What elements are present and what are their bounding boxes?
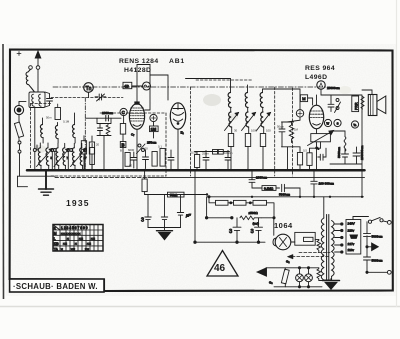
mains terminal top xyxy=(387,221,391,225)
antenna arrow xyxy=(37,53,39,66)
speaker hatch xyxy=(371,95,374,116)
svg-text:·SCHAUB· BADEN W.: ·SCHAUB· BADEN W. xyxy=(13,282,98,291)
bypass capacitor c xyxy=(168,150,174,169)
grid block box 4B xyxy=(123,82,132,88)
dial rheostat xyxy=(281,269,289,284)
svg-text:2000cm: 2000cm xyxy=(256,176,267,180)
circled symbol Wa xyxy=(324,119,331,126)
wire heater rail xyxy=(207,196,364,198)
RC network top bracket xyxy=(282,117,301,122)
box B2 xyxy=(213,150,218,155)
tube RENS1284 grid hatches xyxy=(130,108,144,121)
slim box leads xyxy=(91,144,93,171)
svg-text:±500Ω: ±500Ω xyxy=(249,211,259,215)
svg-text:H4128D: H4128D xyxy=(124,67,151,74)
svg-text:110v: 110v xyxy=(348,248,355,252)
shield box det vertical xyxy=(292,88,294,176)
speaker frame xyxy=(368,95,377,116)
svg-text:M: M xyxy=(54,232,57,236)
antenna padding capacitor xyxy=(45,92,53,107)
svg-text:4B: 4B xyxy=(124,84,129,89)
svg-text:0,5: 0,5 xyxy=(303,149,307,153)
box lead to winding xyxy=(315,238,319,240)
band coil column 3 leads xyxy=(74,113,77,143)
IF2 primary coil xyxy=(245,93,248,108)
svg-text:E₁: E₁ xyxy=(181,131,184,135)
output transformer box PRR xyxy=(352,96,359,112)
band coil column 3 xyxy=(72,125,75,138)
IF2 primary lead top xyxy=(247,85,249,92)
antenna lead right xyxy=(37,69,39,92)
scan page left edge xyxy=(2,44,5,299)
circled anode terminal A xyxy=(317,81,325,89)
wire bias rail xyxy=(145,194,208,196)
svg-text:5000cm: 5000cm xyxy=(372,259,383,263)
osc RC capacitor xyxy=(98,124,103,136)
output line y95 xyxy=(321,95,362,112)
shield box bottom dashed xyxy=(51,175,166,177)
transformer secondary winding xyxy=(332,221,335,277)
AF zigzag top lead xyxy=(331,131,346,137)
tuning pair B right coil xyxy=(63,148,66,166)
wire antenna sec down xyxy=(34,107,36,149)
tube RENS1284 anode elbow xyxy=(145,65,150,111)
earth electrode circle xyxy=(14,105,23,114)
rectifier tube anodes xyxy=(280,238,287,247)
rectifier tube 1064 body xyxy=(275,234,291,250)
variable resistor tone xyxy=(311,134,331,142)
wire left AVC line xyxy=(18,175,56,177)
shield box IF left vertical xyxy=(190,87,192,176)
svg-text:127v: 127v xyxy=(348,242,355,246)
svg-text:25cm: 25cm xyxy=(202,152,210,156)
tuning pair A arrow xyxy=(37,149,53,167)
svg-text:6000: 6000 xyxy=(128,148,135,152)
dial lamp 2 leads xyxy=(308,268,310,287)
box B1 xyxy=(120,142,126,148)
tube RENS1284 top cap xyxy=(135,102,139,104)
trimmer cap on grid line xyxy=(95,94,106,101)
band coil column 2 leads xyxy=(57,123,60,144)
dial lamp 1 leads xyxy=(299,268,301,287)
svg-text:C: C xyxy=(122,110,125,115)
wire left down stub xyxy=(18,176,28,187)
shield box IF top dashed xyxy=(196,79,252,81)
pickup contact a xyxy=(18,141,21,144)
tuning pair A leads xyxy=(35,143,53,170)
IF2 damping resistor box xyxy=(245,134,250,147)
svg-text:××: ×× xyxy=(71,247,75,251)
band coil column 1 xyxy=(40,125,43,138)
svg-text:0,5M: 0,5M xyxy=(191,151,198,155)
diode cap 25cm xyxy=(203,151,209,170)
electrolytic cap a xyxy=(342,149,349,165)
svg-text:250cm: 250cm xyxy=(147,141,157,145)
fieldcoil zigzag xyxy=(361,97,364,110)
svg-text:××: ×× xyxy=(79,237,83,241)
scan page right edge xyxy=(396,0,398,307)
svg-text:5000cm: 5000cm xyxy=(279,192,290,196)
svg-text:46: 46 xyxy=(214,263,226,274)
svg-text:0,1MΩ: 0,1MΩ xyxy=(264,186,274,190)
osc resistor box b xyxy=(89,142,94,154)
band switch table xyxy=(53,225,103,252)
series cap 1cm xyxy=(106,115,109,121)
resistor box 1M xyxy=(150,126,159,132)
wire earth top stub xyxy=(19,101,26,105)
wire box to circle xyxy=(132,85,143,87)
tuning pair A right coil xyxy=(46,148,49,166)
grid bias dash arrow lower xyxy=(292,256,330,258)
shield box tuning right vertical xyxy=(165,113,167,176)
speaker cone xyxy=(377,96,386,114)
svg-text:×: × xyxy=(61,247,63,251)
antenna transformer winding secondary xyxy=(39,94,42,106)
osc RC pair top bracket xyxy=(97,118,111,123)
AF coupling zigzag vertical xyxy=(344,137,346,152)
pickup contact b xyxy=(18,150,21,153)
tone switch contact a xyxy=(336,99,339,102)
svg-text:TA: TA xyxy=(54,247,59,251)
heater zigzag right xyxy=(317,268,322,281)
wave switch contact B left xyxy=(53,149,56,152)
tuning pair B leads xyxy=(55,143,69,170)
svg-text:L: L xyxy=(54,237,56,241)
shield box tuning top dashed right part xyxy=(100,112,166,114)
rectifier tube base xyxy=(273,238,276,246)
svg-text:μF: μF xyxy=(185,213,191,218)
pickup arrow xyxy=(266,268,274,276)
transformer taps xyxy=(335,224,342,252)
svg-text:RENS 1284: RENS 1284 xyxy=(119,58,159,65)
shield box tuning top dashed xyxy=(31,103,52,105)
svg-text:1935: 1935 xyxy=(66,198,90,208)
circled symbol Si xyxy=(334,119,341,126)
wire dashed rail left xyxy=(55,177,148,179)
antenna series coil xyxy=(26,69,35,92)
svg-text:100: 100 xyxy=(266,129,271,133)
smoothing choke zigzag xyxy=(232,217,242,219)
tuning pair C arrow xyxy=(71,149,87,167)
AVC cap 3 xyxy=(177,213,183,228)
IF1 leads xyxy=(231,108,232,171)
svg-text:Ta: Ta xyxy=(353,123,356,127)
coupling top wire to AB1 xyxy=(150,75,168,100)
heater feed vertical left xyxy=(194,170,196,242)
IF1 secondary coil variable xyxy=(229,112,232,127)
RC capacitor xyxy=(279,122,285,147)
antenna terminal right xyxy=(36,66,40,70)
mains switch contact a xyxy=(368,220,371,223)
IF3 primary lead top xyxy=(263,89,301,109)
svg-text:M: M xyxy=(302,96,305,101)
circled det symbol xyxy=(296,110,303,117)
wave switch contact C right xyxy=(84,149,87,152)
heater feed vertical right xyxy=(206,197,208,218)
dial lamp 2 xyxy=(305,274,313,282)
resistor row box 2 xyxy=(234,200,247,205)
svg-text:3: 3 xyxy=(141,218,144,224)
mains terminal bottom xyxy=(387,270,391,274)
wire resistor down xyxy=(18,138,21,176)
AVC cap 1 xyxy=(145,217,151,228)
electrolytic cap 2 xyxy=(255,218,263,242)
tone switch contact b xyxy=(336,107,339,110)
wave switch contact B right xyxy=(67,149,70,152)
resistor row wires xyxy=(209,197,274,218)
heater supply box xyxy=(295,232,315,245)
dial lamp rail top xyxy=(266,267,319,269)
resistor row box 1 xyxy=(216,200,229,205)
smoothing bottom rail xyxy=(195,241,265,243)
tube AB1 envelope xyxy=(170,103,185,129)
cathode resistor box b xyxy=(152,152,157,167)
mains lead top xyxy=(353,217,369,220)
wire transformer to tuning xyxy=(36,108,38,119)
top grid dash-dot bus xyxy=(53,86,330,88)
tone capacitor xyxy=(328,95,334,112)
AVC ground symbol xyxy=(157,230,173,232)
audio bottom rail xyxy=(308,163,357,165)
wire speaker top xyxy=(362,90,372,95)
svg-text:××: ×× xyxy=(91,237,95,241)
grid leak resistor box xyxy=(120,124,125,135)
frame plus mark xyxy=(17,52,21,56)
dial lamp 1 xyxy=(296,274,304,282)
wire Tn down xyxy=(88,92,90,97)
scan smudges xyxy=(203,94,221,106)
mains cap top xyxy=(367,217,369,222)
slanted resistor 1M xyxy=(14,122,23,137)
svg-text:20000cm: 20000cm xyxy=(327,86,340,90)
svg-text:××: ×× xyxy=(85,247,89,251)
tube AB1 diode plates xyxy=(172,104,183,122)
wire second rail xyxy=(148,177,365,179)
box R xyxy=(218,150,223,155)
wire A down xyxy=(320,89,322,95)
bias resistor leads2 xyxy=(144,170,146,194)
svg-text:S: S xyxy=(337,121,339,125)
mains lead to terminal xyxy=(383,221,388,222)
transformer secondary bottom lead xyxy=(324,276,332,280)
RC stem to bus xyxy=(288,147,301,170)
svg-text:×××××××××: ××××××××× xyxy=(61,232,81,236)
tube RENS1284 bottom lead xyxy=(136,129,138,170)
dash arrowhead xyxy=(288,254,294,258)
IF2 secondary coil variable xyxy=(246,112,249,127)
label box SCHAUB-BADEN W. xyxy=(10,279,104,292)
circled C1 xyxy=(120,108,127,115)
svg-text:100 000cm: 100 000cm xyxy=(319,182,335,186)
mains switch contact b xyxy=(380,219,383,222)
IF3 damping resistor box xyxy=(260,134,265,147)
wire M to tube xyxy=(308,98,313,105)
shield box tuning left vertical xyxy=(30,104,32,171)
coupling cap b xyxy=(353,147,360,164)
triangle mark 46 xyxy=(207,251,238,277)
tube RES964 cathode xyxy=(313,124,321,126)
resistor row box 3 xyxy=(253,200,267,205)
main HT bus wire xyxy=(27,169,365,172)
svg-text:B: B xyxy=(122,142,125,147)
tone switch blade xyxy=(335,102,341,113)
svg-text:5000cm: 5000cm xyxy=(337,147,341,158)
antenna arrowhead xyxy=(35,51,41,58)
tuning pair C right coil xyxy=(80,148,83,166)
gang capacitor link line xyxy=(36,145,38,150)
AF grid resistor box xyxy=(297,153,302,165)
bias resistor leads xyxy=(310,148,321,170)
cathode resistor box c xyxy=(160,149,165,167)
AVC caps trio stems xyxy=(148,195,181,218)
svg-text:RES 964: RES 964 xyxy=(305,65,335,72)
mains terminal bottom lead xyxy=(367,271,388,273)
wave switch contact A right xyxy=(51,149,54,152)
scan page bottom edge xyxy=(0,306,400,308)
tube RENS1284 top lead xyxy=(136,86,138,104)
svg-text:××: ×× xyxy=(63,242,67,246)
svg-text:3: 3 xyxy=(251,229,254,235)
IF3 trimmer arrow xyxy=(257,113,271,131)
tube RES964 top lead xyxy=(316,95,318,105)
tube RENS1284 cathode xyxy=(133,125,141,127)
wires screen chain xyxy=(153,122,155,138)
tuning pair B arrow xyxy=(54,149,69,167)
mains filter vertical xyxy=(364,222,371,273)
audio box right edge xyxy=(361,112,363,197)
IF1 damping resistor box xyxy=(228,134,233,147)
bias capacitor xyxy=(318,148,326,160)
transformer ground lead xyxy=(330,279,332,281)
tube AB1 bottom lead xyxy=(177,129,179,170)
IF1 trimmer arrow xyxy=(225,113,239,131)
box M xyxy=(300,95,307,102)
tuning pair C left coil xyxy=(72,148,75,166)
svg-text:100cm: 100cm xyxy=(224,151,233,155)
smoothing rail to rectifier xyxy=(261,218,274,236)
tuning pair A left coil xyxy=(38,148,41,166)
osc box leads xyxy=(84,136,92,171)
tube stem upper xyxy=(136,65,138,87)
electrolytic cap 1 xyxy=(233,218,241,242)
tuning pair C leads xyxy=(74,143,85,170)
bypass capacitor a xyxy=(131,152,137,168)
IF1 primary coil xyxy=(228,93,231,108)
shield box IF right vertical xyxy=(274,87,276,176)
transformer ground symbol xyxy=(323,280,340,282)
svg-text:60: 60 xyxy=(129,164,133,168)
wave switch contact A left xyxy=(33,149,36,152)
bias resistor vertical below bus xyxy=(142,179,147,192)
osc RC resistor xyxy=(106,124,110,136)
band coil column 2 xyxy=(55,126,58,139)
AVC cap 2 xyxy=(161,217,167,228)
IF2 leads xyxy=(248,108,249,171)
junction dots on HT bus xyxy=(36,169,364,198)
svg-text:0,1M: 0,1M xyxy=(63,120,70,124)
coupling cap series xyxy=(276,184,300,197)
voltage selector box xyxy=(346,220,361,255)
wires grid side xyxy=(122,116,125,171)
heater dropper zigzag xyxy=(317,239,321,252)
bypass capacitor b xyxy=(143,150,149,169)
transformer core lines xyxy=(327,215,329,281)
osc coupling line xyxy=(85,117,121,119)
svg-text:50kΩ: 50kΩ xyxy=(170,193,178,197)
RC bottom bracket xyxy=(282,146,294,148)
selector plug blob xyxy=(350,235,358,238)
circled symbol Ta xyxy=(351,121,358,128)
cap 100cm xyxy=(225,151,231,170)
antenna terminal left xyxy=(29,66,33,70)
tube side wires down xyxy=(317,129,321,170)
svg-text:B: B xyxy=(120,149,122,153)
AVC ground bracket xyxy=(148,228,181,231)
junction dots bottom xyxy=(194,217,368,288)
AF resistor lead xyxy=(299,165,301,170)
svg-text:50m: 50m xyxy=(46,116,52,120)
svg-text:5000cm: 5000cm xyxy=(372,235,383,239)
svg-text:(var): (var) xyxy=(253,222,259,226)
svg-text:KG: KG xyxy=(54,242,59,246)
smoothing top rail xyxy=(207,217,232,219)
tube AB1 cathode dot xyxy=(177,123,179,125)
circled symbol Tn xyxy=(84,83,94,93)
svg-text:30: 30 xyxy=(234,129,238,133)
ground chassis left xyxy=(39,170,54,195)
svg-text:220v: 220v xyxy=(348,229,355,233)
wire earth to resistor xyxy=(18,115,20,122)
screen grid resistor box xyxy=(55,108,61,120)
dial lamp rail bottom xyxy=(274,286,322,288)
osc RC bottom bracket xyxy=(97,136,111,171)
svg-text:1000: 1000 xyxy=(251,129,258,133)
svg-text:PRR: PRR xyxy=(355,102,359,110)
border frame xyxy=(10,50,393,292)
osc section dash-dot vertical xyxy=(84,98,86,171)
antenna transformer winding primary xyxy=(32,94,35,106)
wave switch contacts xyxy=(138,144,141,147)
svg-text:1064: 1064 xyxy=(274,221,293,230)
rectifier lead right xyxy=(291,241,295,243)
antenna coupling transformer box xyxy=(29,92,45,108)
band coil column 1 leads xyxy=(42,118,45,143)
svg-text:1M: 1M xyxy=(151,126,157,131)
table X marks xyxy=(61,232,95,252)
mains switch blade xyxy=(372,217,381,220)
heater resistor inside xyxy=(304,237,314,241)
tube RES964 envelope xyxy=(309,105,323,129)
svg-text:100: 100 xyxy=(143,147,148,151)
antenna tap arrow xyxy=(367,246,374,248)
svg-text:C₇: C₇ xyxy=(131,133,134,137)
tap dots xyxy=(341,223,343,253)
bias resistor box xyxy=(307,153,312,166)
wire diode row xyxy=(195,151,230,171)
svg-text:×: × xyxy=(67,237,69,241)
svg-text:W: W xyxy=(326,121,329,125)
svg-text:20: 20 xyxy=(96,143,100,147)
tuning pair B left coil xyxy=(56,148,59,166)
stem top jog xyxy=(137,64,150,66)
grid bias dash arrow upper xyxy=(299,252,330,254)
screen resistor box 01M xyxy=(262,186,276,191)
svg-text:3: 3 xyxy=(229,229,232,235)
svg-text:Tn: Tn xyxy=(86,86,92,92)
earth electrode inner xyxy=(17,108,21,112)
cathode resistor box a xyxy=(125,153,130,167)
row junction dots xyxy=(208,196,275,219)
